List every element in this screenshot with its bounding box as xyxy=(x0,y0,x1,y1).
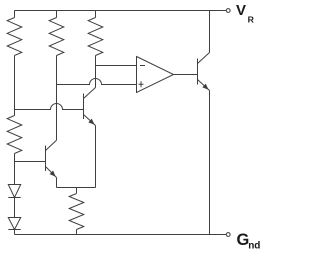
wire Q3 emitter to ground rail xyxy=(209,91,211,235)
top rail (VR net) xyxy=(15,10,227,12)
resistor R3 xyxy=(95,11,97,18)
Gnd terminal xyxy=(226,233,230,237)
svg-text:R: R xyxy=(248,15,255,25)
wire Q1 emitter down xyxy=(56,178,58,188)
wire D1 to D2 xyxy=(14,198,16,218)
diode D2 xyxy=(8,218,20,230)
wire col3 down to Q2 collector xyxy=(95,56,97,88)
transistor Q1 xyxy=(46,140,57,177)
resistor R5 (left middle) xyxy=(14,110,16,116)
wire Q3 collector to top rail xyxy=(209,11,211,53)
wire Q2 base line with hop over col2 xyxy=(15,104,84,110)
op-amp plus sign xyxy=(139,81,144,87)
diode D1 xyxy=(8,185,20,198)
bottom rail (Gnd net) xyxy=(15,234,227,236)
wire Q2 emitter down xyxy=(95,126,97,188)
transistor Q3 (series pass transistor) xyxy=(198,53,210,91)
wire col2 down to Q1 collector xyxy=(56,56,58,141)
wire emitter junction horizontal xyxy=(57,187,96,189)
VR terminal xyxy=(226,9,230,13)
wire Q1 base line xyxy=(15,161,46,163)
resistor R2 xyxy=(56,11,58,18)
wire op-amp inverting input from R3 node xyxy=(96,65,137,67)
transistor Q2 xyxy=(84,88,96,126)
resistor R4 (emitter resistor) xyxy=(76,188,78,194)
wire op-amp non-inverting input with hop over col3 xyxy=(57,79,137,85)
wire op-amp output to Q3 base xyxy=(174,74,198,76)
svg-text:nd: nd xyxy=(248,240,260,251)
wire col1 to diode D1 xyxy=(14,162,16,185)
svg-text:V: V xyxy=(236,2,246,19)
wire col1 R1 to base-line node xyxy=(14,56,16,110)
op-amp minus sign xyxy=(140,65,145,67)
resistor R1 xyxy=(14,11,16,18)
op-amp U1 xyxy=(137,57,174,93)
wire D2 to ground rail xyxy=(14,230,16,235)
